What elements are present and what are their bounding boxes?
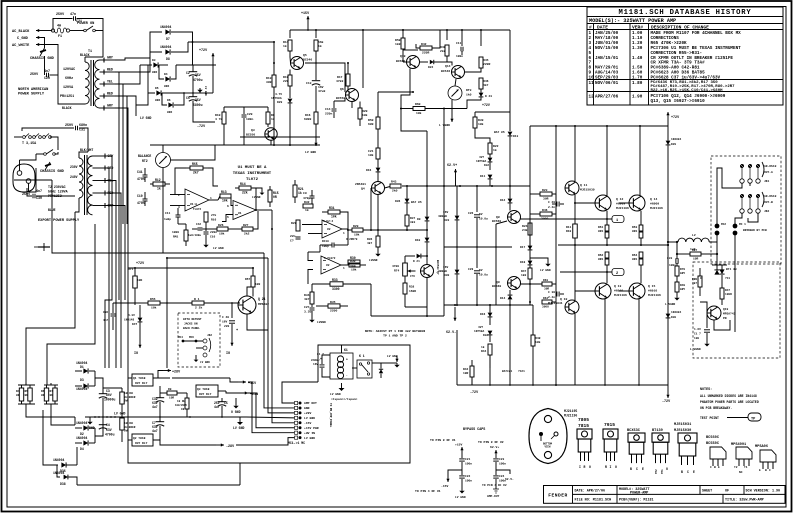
svg-text:R54: R54 [632, 254, 638, 257]
svg-text:24k: 24k [522, 228, 528, 232]
ground mid LVGND [184, 92, 200, 94]
svg-text:MJE15030: MJE15030 [674, 429, 691, 433]
jack wires [717, 168, 742, 226]
svg-text:100n: 100n [465, 463, 472, 466]
svg-text:MJE15030: MJE15030 [580, 188, 595, 192]
op-amp U1B [233, 201, 256, 220]
capacitor C3 main filter [102, 392, 104, 394]
diode D29b [666, 141, 671, 145]
bias servo bottom wire [405, 306, 427, 308]
svg-text:PHANTOM POWER PARTS ARE LOCATE: PHANTOM POWER PARTS ARE LOCATED [700, 400, 759, 404]
svg-text:10 OH: 10 OH [124, 422, 133, 425]
svg-text:D12: D12 [500, 199, 506, 202]
svg-text:220R: 220R [422, 51, 429, 55]
svg-text:RC10: RC10 [322, 240, 329, 243]
svg-text:+72V: +72V [482, 103, 490, 107]
svg-text:-15V: -15V [441, 484, 448, 488]
op-amp U1A [185, 189, 209, 211]
diode D14 [508, 295, 513, 299]
LV GND bus extension [160, 416, 246, 418]
svg-text:10R: 10R [693, 258, 699, 261]
svg-text:0R: 0R [41, 394, 45, 397]
capacitor C27 [311, 304, 313, 307]
LV GND right of D18 [530, 258, 548, 262]
bottom -72V rail [457, 384, 668, 386]
wire fuses to switch [50, 137, 58, 150]
svg-text:D 21: D 21 [413, 260, 420, 263]
transistor Q6 [346, 89, 359, 102]
LV GND relay [372, 362, 381, 364]
resistor R10 4k7 [222, 112, 226, 124]
feedback R30 [348, 260, 360, 264]
svg-text:+15V: +15V [248, 382, 257, 386]
svg-text:YEL: YEL [107, 80, 113, 84]
svg-text:X 2N5?9: X 2N5?9 [346, 238, 358, 241]
svg-text:7915: 7915 [604, 422, 615, 428]
wire Q21 [247, 287, 253, 297]
svg-text:-28V: -28V [226, 445, 235, 449]
svg-text:10k: 10k [416, 111, 422, 115]
diode D9c [425, 217, 430, 221]
resistor R26c 39R lower [542, 282, 552, 286]
svg-text:C: C [687, 470, 689, 474]
resistor R23 39R [540, 192, 552, 196]
resistor R16 27k vert [204, 212, 208, 222]
svg-text:1k: 1k [318, 44, 322, 48]
svg-text:POWER-AMP: POWER-AMP [630, 492, 648, 496]
svg-text:SEP/29/03: SEP/29/03 [595, 76, 619, 81]
capacitor C28 [476, 247, 478, 268]
rail 316 [371, 315, 444, 317]
svg-text:#: # [589, 24, 592, 30]
svg-text:LV GND: LV GND [304, 416, 315, 420]
svg-text:T1: T1 [88, 50, 92, 54]
svg-text:1k: 1k [493, 148, 497, 152]
svg-text:680n: 680n [79, 124, 87, 128]
svg-text:MC2: MC2 [721, 223, 726, 226]
resistor R45 220 vert [479, 57, 483, 68]
svg-text:0R1: 0R1 [632, 230, 638, 233]
+72V arrow mid [212, 53, 214, 93]
relay diode [379, 369, 383, 373]
+72V label mid [176, 64, 216, 66]
svg-text:CHASSIS GND: CHASSIS GND [40, 170, 65, 174]
svg-text:O GND: O GND [231, 410, 241, 414]
svg-text:C42: C42 [196, 223, 201, 226]
svg-text:R37: R37 [410, 217, 416, 220]
svg-text:TP 1 AND TP 2: TP 1 AND TP 2 [383, 334, 407, 338]
arrow AC BLACK [36, 30, 41, 32]
capacitor C33 [676, 242, 678, 259]
svg-text:5V: 5V [479, 213, 483, 216]
svg-text:10.0u: 10.0u [479, 218, 488, 221]
svg-text:Q 15: Q 15 [648, 284, 655, 288]
svg-text:R70: R70 [680, 268, 685, 271]
svg-text:I: I [610, 465, 612, 469]
svg-text:MODEL(S):- 325WATT POWER AMP: MODEL(S):- 325WATT POWER AMP [589, 18, 676, 24]
wire AC WHITE to xfmr bottom [41, 45, 85, 105]
svg-text:WITH DETENT: WITH DETENT [183, 318, 202, 321]
svg-text:LV GND: LV GND [213, 247, 224, 250]
svg-text:DESCRIPTION OF CHANGE: DESCRIPTION OF CHANGE [651, 24, 709, 30]
resistor R47b [720, 288, 724, 299]
svg-text:1000: 1000 [172, 231, 179, 234]
capacitor C5 [221, 398, 223, 402]
wire AC BLACK to fuse [41, 30, 52, 32]
svg-text:+28V: +28V [304, 411, 311, 415]
svg-text:L2: L2 [692, 233, 696, 237]
transistor Q3 [265, 128, 277, 140]
node 2 wire [560, 271, 612, 273]
svg-text:R52: R52 [598, 254, 604, 257]
svg-text:5W: 5W [124, 400, 128, 403]
wire fan to MC1 [282, 382, 318, 403]
svg-text:5W: 5W [124, 430, 128, 433]
relay contact box [357, 360, 372, 378]
wire -72V bottom rail [193, 112, 215, 122]
svg-text:36V: 36V [443, 211, 449, 214]
svg-text:SHEET: SHEET [702, 490, 712, 494]
wire R29 to Q4 base node [363, 229, 427, 231]
svg-text:C2: C2 [186, 71, 190, 75]
+15V arrow top [307, 16, 309, 28]
resistor R42 220R [420, 46, 432, 50]
svg-text:RT4: RT4 [394, 270, 400, 273]
svg-text:JK1: JK1 [764, 180, 770, 183]
svg-text:Q2 TH1B: Q2 TH1B [133, 437, 146, 440]
svg-text:R11: R11 [566, 226, 572, 229]
svg-text:10R: 10R [463, 372, 469, 375]
chassis gnd export [45, 162, 50, 170]
resistor R88 [698, 276, 702, 287]
svg-text:220n: 220n [210, 231, 217, 234]
svg-text:5 TL072: 5 TL072 [324, 257, 336, 260]
svg-text:OUT RLY: OUT RLY [199, 393, 212, 396]
resistor R28 [296, 220, 300, 231]
wires from thermistors [26, 410, 75, 417]
svg-text:R31: R31 [329, 206, 335, 210]
svg-text:PC#6628 C37 1u/63V->4u7/63V: PC#6628 C37 1u/63V->4u7/63V [651, 76, 721, 81]
svg-text:Q3 TH1B: Q3 TH1B [197, 388, 210, 391]
capacitor RC10 100p [331, 243, 333, 248]
svg-text:B: B [630, 467, 632, 471]
svg-text:T1: T1 [744, 466, 748, 469]
resistor R30b out [349, 263, 360, 267]
resistor R14b 1k vert [288, 40, 292, 51]
svg-text:AMP-OUT: AMP-OUT [487, 495, 500, 498]
svg-text:ON PCB BREAKAWAY.: ON PCB BREAKAWAY. [700, 406, 732, 410]
node 1 wire [556, 218, 612, 220]
svg-text:62.V-: 62.V- [446, 331, 456, 335]
resistor R22 1k [488, 143, 492, 154]
svg-text:10k: 10k [535, 340, 541, 344]
svg-text:D38: D38 [60, 482, 66, 486]
svg-text:LVGND: LVGND [369, 259, 378, 262]
svg-text:10k: 10k [354, 233, 360, 237]
svg-text:250V: 250V [65, 124, 74, 128]
svg-text:D17: D17 [520, 246, 526, 249]
svg-text:C10: C10 [137, 194, 143, 198]
wires top mid interconnect [416, 44, 420, 48]
capacitor C14 [333, 101, 335, 108]
svg-text:MC4: MC4 [178, 336, 183, 339]
capacitor C4 main filter [102, 424, 104, 430]
svg-text:D6: D6 [167, 99, 171, 102]
svg-text:220R: 220R [483, 62, 490, 66]
svg-text:+72V: +72V [136, 262, 145, 266]
thermistor pair R4 R5 [18, 384, 35, 386]
svg-text:BC546: BC546 [303, 58, 312, 62]
svg-text:OF: OF [725, 490, 729, 494]
svg-text:1N4004: 1N4004 [160, 45, 171, 49]
transistor Q14o [629, 195, 645, 211]
svg-text:#6909: #6909 [650, 202, 659, 206]
svg-text:R88: R88 [692, 278, 697, 281]
svg-text:NOTE: ADJUST RT 1 FOR 3mV BETW: NOTE: ADJUST RT 1 FOR 3mV BETWEEN [365, 329, 426, 333]
svg-text:5: 5 [227, 216, 229, 219]
svg-text:C: C [636, 467, 638, 471]
svg-text:O: O [589, 465, 591, 469]
svg-text:BC550: BC550 [336, 96, 345, 100]
svg-text:GRY: GRY [107, 56, 113, 60]
svg-text:R16: R16 [211, 219, 217, 222]
svg-text:-15V: -15V [304, 421, 311, 425]
resistor R17 47k [346, 74, 350, 86]
wire runs to rectifier [118, 125, 120, 224]
svg-text:LV GND: LV GND [305, 150, 316, 154]
svg-text:Q3: Q3 [251, 128, 255, 132]
transformer T1 secondary [95, 60, 100, 108]
svg-text:R64: R64 [543, 297, 548, 300]
svg-text:CHASSIS GND: CHASSIS GND [30, 57, 55, 61]
top +15V bus [290, 29, 510, 31]
detent jacks dashed box [178, 313, 220, 367]
svg-text:MJ21196: MJ21196 [648, 293, 661, 297]
svg-text:AD-OS10: AD-OS10 [764, 195, 777, 198]
svg-text:LV GND: LV GND [387, 355, 398, 358]
transistor Q14 [452, 66, 465, 79]
svg-text:C 30: C 30 [548, 291, 555, 294]
svg-text:GRY: GRY [680, 288, 685, 291]
svg-text:R47: R47 [725, 289, 730, 292]
jack JK1 [740, 164, 744, 168]
svg-text:LVGND: LVGND [317, 321, 326, 324]
svg-text:50Hz 120VA: 50Hz 120VA [48, 190, 68, 194]
svg-text:LV GND: LV GND [540, 269, 551, 272]
svg-text:<tspan></tspan>: <tspan></tspan> [331, 397, 358, 401]
svg-text:1.40: 1.40 [632, 56, 643, 61]
svg-text:R51: R51 [598, 226, 604, 229]
svg-text:D14: D14 [500, 297, 506, 300]
svg-text:C?6: C?6 [410, 275, 415, 278]
resistor R12 [153, 182, 165, 186]
svg-text:10k: 10k [478, 122, 484, 126]
svg-text:1k: 1k [298, 191, 302, 195]
inductor L2 [678, 238, 709, 242]
svg-text:390: 390 [350, 265, 356, 269]
svg-text:D16: D16 [480, 313, 486, 316]
svg-text:390: 390 [266, 80, 272, 84]
svg-text:-72V: -72V [197, 125, 206, 129]
svg-text:C30: C30 [36, 197, 42, 201]
svg-text:R14: R14 [240, 182, 246, 186]
svg-text:100n: 100n [465, 480, 472, 483]
wires driver to outputs [575, 202, 595, 204]
svg-text:GRY: GRY [680, 272, 685, 275]
wire preamp out runs to MC1 [150, 252, 264, 254]
svg-text:RT2: RT2 [142, 159, 148, 163]
svg-text:3k3: 3k3 [410, 220, 416, 224]
svg-text:MC1->1 MC: MC1->1 MC [288, 441, 305, 445]
svg-text:4k7: 4k7 [692, 281, 697, 285]
svg-text:D33: D33 [444, 219, 450, 222]
resistor R44b 1k [488, 344, 492, 355]
svg-text:R47: R47 [521, 270, 527, 273]
svg-text:TO PIN 8 OF U1: TO PIN 8 OF U1 [430, 438, 456, 442]
svg-text:R53: R53 [632, 226, 638, 229]
svg-text:2k2: 2k2 [244, 232, 250, 236]
svg-text:C13: C13 [306, 81, 312, 85]
capacitor C7 [159, 417, 161, 422]
wire Q10 emitter chain [401, 69, 427, 132]
svg-text:D1: D1 [80, 365, 84, 369]
svg-text:C27: C27 [304, 305, 310, 309]
svg-text:Q13, Q15 #6927->#6910: Q13, Q15 #6927->#6910 [651, 99, 706, 104]
output node wire [558, 244, 668, 246]
svg-text:MT2: MT2 [655, 469, 658, 474]
wire rail 303 [135, 302, 148, 304]
resistor R33 3300 [330, 282, 343, 286]
svg-text:10R: 10R [169, 397, 174, 400]
-15V branch [448, 470, 462, 476]
svg-text:0R2: 0R2 [152, 71, 158, 74]
svg-text:3300: 3300 [332, 287, 340, 291]
relay K1 coil box [330, 353, 353, 379]
svg-text:0R: 0R [16, 394, 20, 397]
svg-text:R27: R27 [243, 223, 249, 227]
AMP-OUT gnd [495, 489, 497, 491]
svg-text:R49: R49 [680, 284, 685, 287]
svg-text:R32: R32 [304, 200, 310, 204]
+28V arrow top [163, 370, 171, 372]
bleeder resistor R3 [121, 430, 123, 442]
wire Q14 emitter to RT3 [455, 79, 456, 86]
svg-text:MJ21196: MJ21196 [650, 206, 663, 210]
svg-text:2.2n: 2.2n [548, 206, 555, 209]
IG ground right [231, 340, 233, 346]
svg-text:FENDER: FENDER [548, 493, 568, 499]
wire mid node 247 [444, 246, 512, 248]
svg-text:B: B [765, 469, 767, 472]
svg-text:U1: U1 [238, 212, 242, 215]
svg-text:C11: C11 [165, 212, 171, 215]
svg-text:R: R [584, 465, 586, 469]
LV GND under C27 [311, 318, 313, 320]
svg-text:0R1: 0R1 [632, 258, 638, 261]
wire preamp input from border [14, 179, 52, 181]
svg-text:TO PIN 8 OF U2: TO PIN 8 OF U2 [478, 440, 504, 444]
svg-text:47k0: 47k0 [336, 79, 343, 83]
resistor R35 [328, 304, 340, 308]
wires relay strip [128, 377, 132, 379]
svg-text:TEXAS INSTRUMENT: TEXAS INSTRUMENT [233, 172, 272, 176]
svg-text:250V: 250V [30, 73, 39, 77]
svg-text:+28V: +28V [172, 371, 181, 375]
svg-text:Q 12: Q 12 [616, 197, 623, 201]
resistor R25 3900 [540, 212, 552, 216]
LV GND phantom [706, 342, 708, 344]
svg-text:+VIN: +VIN [250, 393, 258, 397]
svg-text:E: E [718, 466, 720, 469]
wires VAS [529, 126, 531, 194]
svg-text:D10: D10 [415, 239, 421, 242]
LV GND near R14 [256, 188, 262, 191]
resistor R87 [690, 252, 701, 256]
emitter resistor R54 [639, 252, 643, 258]
wire bus drops [289, 30, 291, 38]
svg-text:1u0p: 1u0p [164, 218, 171, 221]
resistor R14 22k [239, 186, 251, 190]
transistor Q21 [238, 296, 256, 314]
resistor bleeder C8 [185, 398, 189, 409]
svg-text:3900: 3900 [542, 306, 549, 309]
svg-text:NOV/15/00: NOV/15/00 [595, 46, 619, 51]
svg-text:RT1: RT1 [128, 268, 134, 271]
svg-text:VIEW: VIEW [545, 446, 551, 449]
+72V wire 112 [475, 111, 510, 113]
wire preamp rail 137 [240, 136, 320, 138]
capacitor C41 [143, 174, 148, 176]
svg-text:Q4: Q4 [361, 187, 365, 191]
wire C GND down [41, 38, 45, 49]
svg-text:VER#: VER# [632, 24, 643, 30]
emitter resistor R52 [605, 252, 609, 258]
svg-text:1N750A: 1N750A [474, 330, 484, 333]
svg-text:11: 11 [589, 81, 595, 86]
transistor Q19 [707, 306, 721, 320]
transistor Q7 [421, 265, 434, 278]
svg-text:+15V: +15V [301, 12, 310, 16]
svg-text:4k7: 4k7 [367, 241, 373, 245]
arrow AC WHITE [36, 44, 41, 46]
svg-text:1k: 1k [481, 345, 485, 349]
svg-text:C9: C9 [303, 191, 307, 195]
emitter resistor R51 [605, 225, 609, 231]
svg-text:4u7: 4u7 [214, 405, 220, 409]
resistor R41 1k0 vert [401, 38, 405, 49]
svg-text:MT1: MT1 [661, 469, 664, 474]
svg-text:1.70: 1.70 [632, 76, 643, 81]
svg-text:100n: 100n [246, 117, 253, 121]
transistor Q12 [595, 195, 611, 211]
svg-text:16V: 16V [313, 363, 318, 366]
svg-text:C?: C? [290, 239, 294, 243]
transistor Q15 [629, 283, 645, 299]
svg-text:Q1 TH1B: Q1 TH1B [133, 377, 146, 380]
wire run down to psu [166, 258, 168, 368]
svg-text:POWER SUPPLY: POWER SUPPLY [18, 93, 45, 97]
svg-text:4.7V: 4.7V [275, 93, 282, 96]
svg-text:OUT-A: OUT-A [764, 171, 773, 174]
resistor R36 4k7 [376, 236, 380, 247]
svg-text:R9: R9 [168, 388, 172, 391]
svg-text:6800u: 6800u [193, 103, 203, 107]
svg-text:#6910: #6910 [614, 289, 623, 293]
diode D16 [488, 313, 493, 317]
resistor R47c 1k0 [528, 268, 532, 279]
svg-text:1N4004: 1N4004 [671, 311, 681, 314]
svg-text:120VAC: 120VAC [63, 68, 75, 72]
